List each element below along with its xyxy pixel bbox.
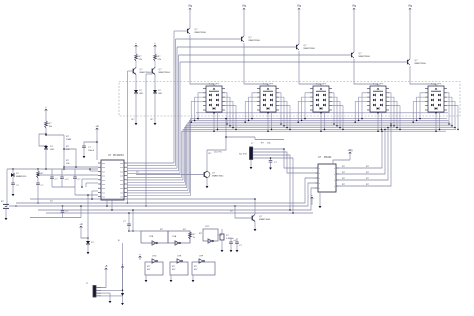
wire Q3 base riser [176, 47, 178, 168]
transistor Q4 MMBT3906 [352, 52, 371, 58]
svg-text:MMBD914: MMBD914 [16, 176, 27, 178]
svg-text:100nF: 100nF [88, 150, 95, 152]
svg-text:x: x [334, 168, 335, 170]
wire indicator loop [39, 133, 47, 147]
transistor Q5 MMBT3906 [408, 59, 427, 65]
battery B1 [1, 201, 17, 208]
svg-text:7-seg DPY: 7-seg DPY [431, 84, 442, 86]
svg-text:Ser Port: Ser Port [239, 153, 247, 156]
wire Q3 base fan [127, 167, 177, 169]
wire J2 a [101, 265, 108, 288]
svg-text:100R: 100R [66, 139, 72, 141]
svg-text:x: x [334, 186, 335, 188]
svg-text:Vdg: Vdg [242, 6, 247, 8]
svg-text:x: x [319, 188, 320, 190]
svg-text:xxx: xxx [120, 197, 123, 199]
wire lower bus 5 [30, 198, 255, 200]
inverter U2B U2A osc [129, 229, 190, 245]
LED D colon 1 [134, 75, 144, 114]
svg-text:+G: +G [95, 125, 98, 128]
wire Vdg to Q5 [409, 12, 411, 59]
LED D indicator [44, 146, 55, 169]
svg-text:U?A: U?A [172, 235, 177, 238]
svg-text:7-seg DPY: 7-seg DPY [316, 84, 327, 86]
transistor Q3 MMBT3906 [297, 44, 316, 50]
wire Vdg to Q1 [189, 12, 191, 28]
resistor R serial [261, 143, 271, 145]
wire segment bus line g [183, 128, 456, 130]
wire Q2 base riser [175, 39, 177, 166]
wire Q7 collector [254, 198, 256, 214]
wire lower bus 1 [16, 178, 315, 203]
wire lower bus 2 [9, 183, 315, 206]
wire Q5 base fan [127, 172, 180, 174]
svg-text:xxx: xxx [102, 180, 105, 182]
svg-text:Vdg: Vdg [408, 6, 413, 8]
wire PIC left pins [37, 168, 98, 200]
resistor R1 indicator [45, 106, 53, 134]
wire Q6 base [136, 172, 204, 175]
svg-text:xxx: xxx [102, 163, 105, 165]
wire bus riser g [127, 129, 183, 180]
svg-text:LED: LED [139, 93, 144, 95]
svg-text:xxx: xxx [102, 171, 105, 173]
svg-text:x: x [319, 178, 320, 180]
IC U3 interface [315, 156, 339, 192]
svg-text:U?F: U?F [199, 256, 204, 258]
wire Vdg to Q4 [353, 12, 355, 52]
diode D2 and cap C1 [11, 169, 27, 196]
wire colon base 1 [127, 71, 134, 204]
IC U1 PIC16C54 [98, 154, 127, 200]
svg-text:MMBT3904: MMBT3904 [212, 176, 224, 178]
display group dashed boundary [119, 82, 460, 117]
wire power entry [79, 194, 88, 239]
svg-text:U?B: U?B [149, 236, 154, 238]
wire left rail [7, 168, 98, 206]
wire lower bus 3 [38, 188, 315, 210]
power Vdg 2 [242, 6, 247, 13]
svg-text:Vdg: Vdg [352, 6, 357, 8]
wire colon 1 return [132, 114, 138, 125]
svg-text:xxx: xxx [120, 180, 123, 182]
label dec pnt [214, 151, 222, 154]
power Vdg 4 [352, 6, 357, 13]
wire bus riser a [127, 119, 191, 196]
wire U3 outputs to bus [339, 125, 392, 186]
svg-text:xxx: xxx [120, 184, 123, 186]
svg-text:LED: LED [158, 93, 163, 95]
connector J1 serial port [239, 143, 254, 160]
wire colon base 2 [145, 74, 152, 207]
svg-text:7-seg DPY: 7-seg DPY [263, 84, 274, 86]
svg-text:PIC16C54: PIC16C54 [113, 155, 124, 157]
svg-text:7-seg DPY: 7-seg DPY [209, 84, 220, 86]
wire J2 d [101, 290, 124, 306]
inverter U2C [199, 226, 218, 243]
LED D colon 2 [153, 75, 163, 114]
svg-text:7-seg DPY: 7-seg DPY [373, 84, 384, 86]
svg-text:xxx: xxx [102, 197, 105, 199]
crystal X1 [218, 229, 234, 252]
transistor Q2 MMBT3906 [242, 36, 261, 42]
svg-text:xxx: xxx [102, 188, 105, 190]
power Vdg 1 [188, 6, 193, 13]
wire Q4 emitter to display 4 [354, 59, 378, 86]
ground U3 [319, 192, 322, 208]
wire Q1 base riser [173, 31, 175, 163]
transistor Q7 [252, 214, 271, 221]
wire bus riser b [127, 120, 189, 192]
cap C6 decoupling [82, 125, 99, 160]
svg-text:xxx: xxx [120, 176, 123, 178]
power stub row2 [139, 253, 142, 260]
svg-text:xxx: xxx [120, 167, 123, 169]
wire display DS4 segment taps [354, 93, 400, 132]
svg-text:x: x [319, 183, 320, 185]
svg-text:xxx: xxx [102, 184, 105, 186]
svg-text:Dec Pnt: Dec Pnt [214, 151, 222, 154]
svg-text:Vdg: Vdg [297, 6, 302, 8]
wire Q1 base fan [127, 162, 174, 164]
wire Q1 emitter to display 1 [190, 35, 214, 86]
svg-text:xxx: xxx [120, 192, 123, 194]
wire Vdg to Q2 [243, 12, 245, 36]
wire PIC to bus [106, 200, 113, 211]
svg-text:xxx: xxx [102, 192, 105, 194]
wire display DS5 segment taps [412, 93, 458, 132]
caps C3 C4 C5 [50, 169, 98, 195]
wire Q2 emitter to display 2 [244, 43, 268, 86]
svg-text:MMBT3904: MMBT3904 [259, 219, 271, 221]
wire segment bus line f [184, 127, 454, 129]
7-segment display DS2 [257, 84, 279, 113]
power stub mid [311, 194, 314, 205]
7-segment display DS5 [425, 84, 447, 113]
wire Vdg to Q3 [298, 12, 300, 44]
wire osc feeds [128, 209, 134, 232]
svg-text:U?E: U?E [177, 256, 182, 258]
wire Q3 emitter to display 3 [299, 51, 321, 86]
resistor R3 cap C2 [36, 169, 44, 204]
diode D power [86, 238, 95, 254]
wire Q4 base fan [127, 170, 179, 172]
wire segment bus line d [187, 123, 452, 125]
cap C bus left [30, 201, 82, 218]
svg-text:Vdg: Vdg [188, 6, 193, 8]
wire segment bus line h [182, 130, 446, 132]
resistors R divider [45, 134, 98, 168]
transistor Q1 MMBT3906 [188, 28, 207, 34]
transistor Q6 dec point [204, 171, 224, 178]
wire bus riser d [127, 124, 187, 188]
power Vdg 5 [408, 6, 413, 13]
svg-text:LED: LED [50, 149, 55, 151]
ground Q7 [254, 222, 257, 232]
wire bus riser c [127, 122, 188, 190]
wire bus riser h [127, 131, 182, 177]
wire lower bus 4 [46, 211, 313, 214]
cap C osc [123, 221, 131, 232]
svg-text:xxx: xxx [120, 188, 123, 190]
svg-text:MX232: MX232 [324, 157, 332, 159]
svg-text:x: x [334, 180, 335, 182]
svg-text:MMBT3906: MMBT3906 [195, 32, 207, 34]
svg-text:xxx: xxx [102, 167, 105, 169]
ground battery [5, 208, 8, 220]
wire bus riser f [127, 128, 184, 183]
wire segment bus line a [191, 118, 448, 120]
svg-text:U?D: U?D [152, 256, 157, 258]
svg-text:+Dig: +Dig [348, 149, 354, 152]
wire segment bus line b [189, 119, 448, 121]
ground serial [250, 160, 253, 170]
wire antenna [118, 240, 124, 296]
transistor Q colon 1 [133, 67, 151, 74]
svg-text:MMBT3904: MMBT3904 [159, 72, 171, 74]
wire Q3 base [177, 46, 297, 48]
power Vdg 3 [297, 6, 302, 13]
connector J2 power [86, 283, 101, 297]
svg-text:xxx: xxx [120, 163, 123, 165]
svg-text:xxx: xxx [120, 171, 123, 173]
resistor R osc [189, 231, 196, 243]
wire segment bus line c [188, 121, 450, 123]
7-segment display DS3 [310, 84, 332, 113]
transistor Q colon 2 [152, 67, 170, 74]
wire Q6 collector route [207, 118, 255, 171]
svg-text:MMBT3906: MMBT3906 [415, 63, 427, 65]
svg-text:MMBT3906: MMBT3906 [304, 48, 316, 50]
wire Q5 base [180, 61, 408, 63]
7-segment display DS1 [203, 84, 225, 113]
wire bus junction [234, 205, 252, 218]
wire Q6 emitter gnd [206, 178, 209, 188]
svg-text:x: x [334, 174, 335, 176]
svg-text:U?C: U?C [205, 226, 210, 228]
inverter U?D [145, 256, 163, 283]
resistor R colon 2 [154, 42, 162, 68]
wire colon 2 return [151, 114, 157, 125]
inverter U?E [170, 256, 188, 283]
wire Q1 base [174, 30, 188, 32]
svg-text:+G: +G [79, 223, 82, 226]
resistor R colon 1 [135, 42, 143, 68]
wire Q2 base [176, 38, 242, 40]
wire display link line [196, 112, 448, 114]
svg-text:x: x [319, 168, 320, 170]
svg-text:MMBT3906: MMBT3906 [359, 56, 371, 58]
wire display DS1 segment taps [190, 93, 236, 132]
wire display DS2 segment taps [244, 93, 290, 132]
wire segment bus line e [186, 125, 454, 127]
wire bus riser e [127, 126, 186, 185]
wire Q4 base riser [178, 55, 180, 171]
wire J2 c [101, 293, 111, 303]
cap C serial [269, 157, 278, 170]
wire J2 b [101, 263, 124, 291]
wire serial to U3 and bus [253, 149, 315, 214]
wire serial top [255, 137, 285, 150]
wire Q5 emitter to display 5 [410, 66, 436, 86]
power +Dig U3 [333, 149, 353, 164]
svg-text:xxx: xxx [102, 176, 105, 178]
wire display DS3 segment taps [297, 93, 343, 132]
wire Q2 base fan [127, 165, 176, 167]
svg-text:x: x [319, 173, 320, 175]
wire Q5 base riser [179, 62, 181, 173]
wire Q4 base [179, 54, 352, 56]
7-segment display DS4 [367, 84, 389, 113]
svg-text:MMBT3906: MMBT3906 [249, 40, 261, 42]
inverter U?F [192, 256, 215, 283]
caps osc gnd [229, 238, 242, 252]
